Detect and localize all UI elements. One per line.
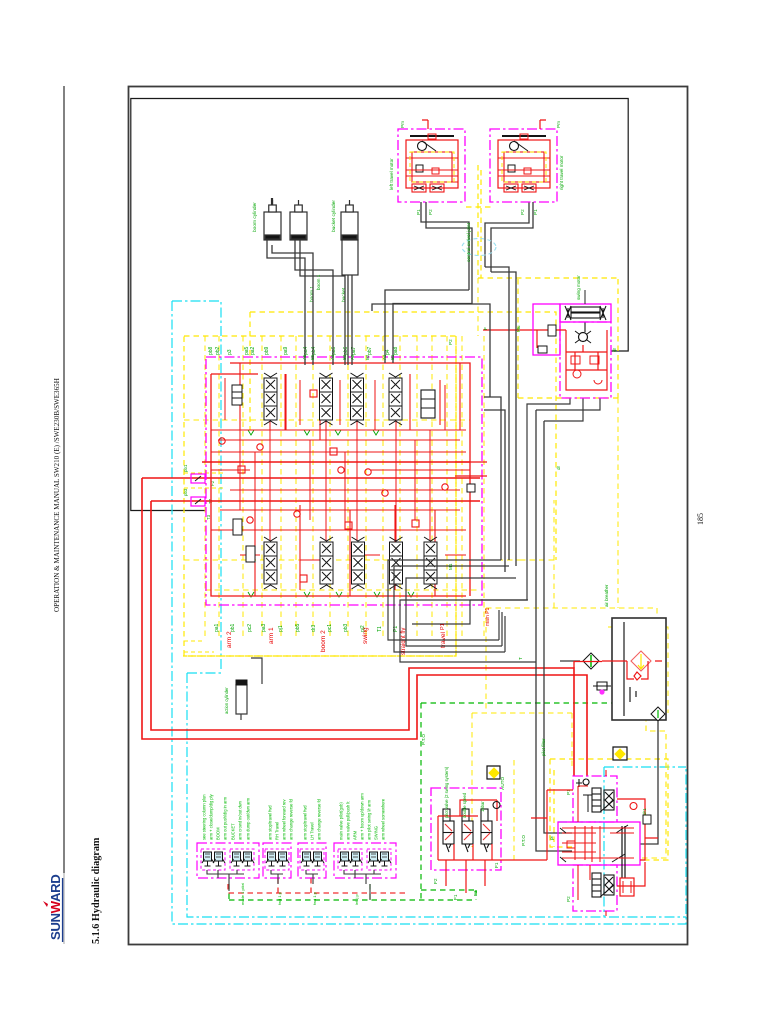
svg-text:dr: dr <box>556 465 561 470</box>
pilot line <box>295 336 297 640</box>
nested return bundle below valve <box>388 560 536 662</box>
svg-text:P2: P2 <box>448 339 453 345</box>
solenoid valve 2 <box>462 809 473 852</box>
svg-text:B2: B2 <box>365 354 370 360</box>
svg-text:see steering column plun: see steering column plun <box>202 794 207 840</box>
svg-text:arm wheel forward rev: arm wheel forward rev <box>282 799 287 840</box>
yellow port stubs left <box>184 473 225 652</box>
extra valve interior reds <box>211 420 466 541</box>
svg-text:pb4: pb4 <box>311 346 317 355</box>
svg-text:arm change reverse fd: arm change reverse fd <box>289 798 294 840</box>
svg-text:left travel motor: left travel motor <box>389 158 394 190</box>
svg-text:fwd 1 p: fwd 1 p <box>312 891 317 905</box>
svg-text:arm stop/travel fwd: arm stop/travel fwd <box>303 805 308 840</box>
svg-text:arm change reverse fd: arm change reverse fd <box>317 798 322 840</box>
svg-text:arm 1: arm 1 <box>268 627 275 644</box>
small check valve group upper-left <box>232 385 242 405</box>
red lines into valve left <box>142 462 480 501</box>
svg-text:F1: F1 <box>494 862 500 868</box>
svg-text:arm + boom up/down arm: arm + boom up/down arm <box>360 793 365 840</box>
pilot line <box>204 336 206 640</box>
svg-text:Pm: Pm <box>400 121 405 128</box>
svg-text:pilot valve (2 swing system): pilot valve (2 swing system) <box>444 766 449 818</box>
port pb1 <box>191 474 205 483</box>
spool valve upper 3 <box>351 373 364 425</box>
solenoid valve 1 <box>443 809 454 852</box>
svg-text:A5: A5 <box>302 354 307 360</box>
svg-text:pa8: pa8 <box>393 346 399 355</box>
svg-text:arm 2: arm 2 <box>226 631 233 648</box>
red pump delivery lines long <box>142 478 587 776</box>
pilot valve group 1 (LH joystick) <box>197 843 259 878</box>
svg-text:15bar: 15bar <box>480 801 485 812</box>
boom cylinder hoses <box>267 240 313 365</box>
spool valve upper 1 <box>264 373 277 425</box>
pilot line <box>280 336 282 640</box>
svg-text:arm valve pull/push lt: arm valve pull/push lt <box>346 801 351 840</box>
svg-text:P2: P2 <box>566 896 571 902</box>
pilot line <box>261 336 263 640</box>
svg-text:pb2: pb2 <box>215 346 221 355</box>
pilot accumulator cylinder <box>236 658 262 720</box>
svg-text:P.T.O: P.T.O <box>521 835 526 846</box>
svg-text:Mu: Mu <box>516 325 521 332</box>
svg-text:main P1: main P1 <box>485 607 491 626</box>
svg-text:RH Travel: RH Travel <box>275 822 280 840</box>
svg-text:boom cylinder: boom cylinder <box>252 202 258 232</box>
pilot line <box>416 336 418 640</box>
svg-text:pj1: pj1 <box>278 625 284 632</box>
svg-text:B1: B1 <box>390 354 395 360</box>
red line solenoid to pump <box>531 790 573 860</box>
solenoid block red piping <box>438 800 547 860</box>
SUNWARD logo <box>43 875 63 942</box>
pilot line <box>382 336 384 640</box>
breather small glyph <box>593 682 611 690</box>
svg-text:pb3: pb3 <box>343 623 349 632</box>
bucket cylinder barrel extension <box>342 240 358 275</box>
svg-text:ARM: ARM <box>353 830 358 840</box>
pilot pair 2 <box>265 849 289 870</box>
svg-text:dr1: dr1 <box>642 808 647 815</box>
spool valve lower 5 <box>424 537 437 589</box>
yellow box pump top <box>550 759 668 860</box>
yellow pilot box around main valve <box>184 336 456 656</box>
swing reduction gearbox box <box>533 304 560 355</box>
accumulator near pump <box>613 747 627 760</box>
travel motor hoses right <box>485 202 533 272</box>
accumulator near solenoid <box>487 766 500 779</box>
pilot line <box>483 336 485 640</box>
swing motor symbol <box>579 333 588 342</box>
pilot line <box>329 336 331 640</box>
pump swash arrows <box>600 800 614 897</box>
main pump P2 (piston pump) <box>592 873 614 897</box>
pilot pair 1b <box>230 849 254 870</box>
svg-text:M1: M1 <box>448 563 453 570</box>
svg-text:double speed: double speed <box>462 792 467 818</box>
svg-text:pa9: pa9 <box>283 346 289 355</box>
regulator red circuit <box>562 826 596 862</box>
pilot line <box>218 336 220 640</box>
anti-sway valve left <box>537 330 566 348</box>
gray hose from top right <box>372 304 490 397</box>
svg-text:P.T.O: P.T.O <box>421 734 426 745</box>
svg-text:Pm: Pm <box>556 121 561 128</box>
svg-text:pa2: pa2 <box>250 346 256 355</box>
pump lower magenta box <box>573 865 617 911</box>
travel motor hoses left <box>421 202 472 304</box>
yellow pilot to tank area <box>486 398 657 656</box>
pump red envelope lines <box>578 770 606 916</box>
svg-text:F1: F1 <box>453 894 459 900</box>
svg-text:BOOM: BOOM <box>216 827 221 840</box>
svg-text:arm out push/dig in arm: arm out push/dig in arm <box>223 796 228 840</box>
svg-text:boom 2: boom 2 <box>320 630 327 652</box>
svg-text:SWING: SWING <box>374 826 379 840</box>
swing gear symbol <box>565 306 606 332</box>
svg-text:arm crowd in/out dwn: arm crowd in/out dwn <box>238 800 243 840</box>
svg-text:T1: T1 <box>377 626 383 632</box>
svg-text:LH Travel: LH Travel <box>310 822 315 840</box>
svg-text:fwd 1 p: fwd 1 p <box>277 891 282 905</box>
main control valve magenta envelope <box>206 357 482 605</box>
pilot line <box>347 336 349 640</box>
svg-text:bucket cylinder: bucket cylinder <box>331 200 337 232</box>
swing motor valve block magenta <box>560 322 611 398</box>
pump upper magenta box <box>573 776 617 822</box>
yellow line between travel motors <box>466 165 618 398</box>
tank drain bus loop (left/top rails) <box>131 99 628 511</box>
pilot valve group 3 (LH travel) <box>298 843 326 878</box>
red internal manifold lines lower <box>211 470 470 596</box>
svg-text:A3: A3 <box>330 354 335 360</box>
left travel motor <box>398 129 465 202</box>
svg-text:arm stop/travel fwd: arm stop/travel fwd <box>268 805 273 840</box>
yellow pilot horizontals valve zone <box>184 419 470 421</box>
svg-text:BUCKET: BUCKET <box>231 823 236 840</box>
svg-text:arm + close/dump/dig ply: arm + close/dump/dig ply <box>209 793 214 840</box>
svg-text:main valve pilot(gob): main valve pilot(gob) <box>339 802 344 840</box>
green tick marks at spool bases <box>248 430 414 597</box>
svg-text:F3: F3 <box>473 890 479 896</box>
hydraulic tank <box>612 618 666 720</box>
svg-text:central swivel joint: central swivel joint <box>466 222 472 262</box>
red riser pair to swing <box>455 330 537 476</box>
bucket cylinder <box>341 200 358 240</box>
black riser bundle right of valve <box>484 397 505 572</box>
svg-text:pc1: pc1 <box>327 624 333 632</box>
red feed stubs above motors <box>422 120 546 129</box>
solenoid valve 3 <box>481 809 492 852</box>
spool valve lower 2 <box>320 537 333 589</box>
spool valve lower 3 <box>352 537 365 589</box>
svg-text:P1: P1 <box>533 209 538 215</box>
central swivel joint ellipse <box>462 239 496 256</box>
spool valve lower 4 <box>390 537 403 589</box>
relief valve small left <box>233 519 255 562</box>
right travel motor <box>490 129 557 202</box>
svg-text:T: T <box>518 657 523 660</box>
cyan drain line envelope left <box>172 301 686 924</box>
pilot valve group 4 (RH joystick) <box>334 843 396 878</box>
tank drain down to pump <box>640 721 658 844</box>
drive shaft <box>622 826 625 878</box>
svg-text:p4: p4 <box>385 349 391 355</box>
svg-text:185: 185 <box>696 513 705 525</box>
svg-text:B5: B5 <box>310 354 315 360</box>
bucket cylinder hoses <box>348 275 352 365</box>
pilot relief small <box>493 802 500 809</box>
pilot hoses to green drain <box>228 884 230 891</box>
spool valve upper 4 <box>389 373 402 425</box>
pilot pair 4a <box>338 849 362 870</box>
svg-text:T3: T3 <box>206 514 211 520</box>
svg-text:swing motor: swing motor <box>576 275 581 300</box>
boom cylinder 2 <box>290 200 307 240</box>
svg-text:F2: F2 <box>433 878 439 884</box>
svg-text:dr3: dr3 <box>311 625 317 632</box>
svg-text:air breather: air breather <box>604 584 609 607</box>
misc small red elements in valve <box>219 438 225 444</box>
svg-text:pa4: pa4 <box>303 346 309 355</box>
pilot line <box>461 336 463 640</box>
svg-text:pb7: pb7 <box>367 346 373 355</box>
pilot valve group 2 (RH travel) <box>263 843 291 878</box>
pilot line <box>365 336 367 640</box>
pump regulator box <box>558 822 640 865</box>
svg-text:pb9: pb9 <box>264 346 270 355</box>
main pump P1 (piston pump) <box>592 788 614 812</box>
svg-text:B3: B3 <box>342 354 347 360</box>
svg-text:F: F <box>483 327 489 330</box>
swing motor top box (gear) <box>560 304 611 322</box>
swing block red circuit <box>566 330 607 390</box>
svg-text:pb5: pb5 <box>295 623 301 632</box>
svg-text:A2: A2 <box>350 354 355 360</box>
svg-text:mode 1 pilot: mode 1 pilot <box>240 882 245 905</box>
yellow box solenoid/pump mid <box>472 627 668 847</box>
return line through filters <box>602 660 662 662</box>
spool valve upper 2 <box>320 373 333 425</box>
svg-text:boom 1: boom 1 <box>316 274 321 290</box>
suction filter green diamond <box>583 653 599 669</box>
yellow pilot box outer 2 <box>183 312 556 656</box>
svg-text:SUNWARD: SUNWARD <box>48 875 63 940</box>
tank internal baffle <box>623 622 625 716</box>
svg-text:pilot filter: pilot filter <box>541 738 546 756</box>
svg-text:pa3: pa3 <box>261 623 267 632</box>
red feed small items right <box>630 803 637 810</box>
svg-text:boom 1: boom 1 <box>309 286 315 302</box>
return filter red diamond <box>631 651 651 671</box>
svg-text:bucket: bucket <box>341 287 347 302</box>
svg-text:A1: A1 <box>382 354 387 360</box>
svg-text:P2: P2 <box>428 209 433 215</box>
svg-text:pb1: pb1 <box>183 464 188 472</box>
solenoid valve block magenta box <box>431 788 501 870</box>
yellow drop from travel to valve <box>477 278 479 336</box>
svg-text:pb8: pb8 <box>208 346 214 355</box>
boom cylinder 1 <box>264 200 281 240</box>
main valve red body outline <box>211 363 470 596</box>
svg-text:arm wheel somewhere: arm wheel somewhere <box>381 798 386 840</box>
svg-text:dr: dr <box>612 347 617 352</box>
svg-text:left j p: left j p <box>354 894 359 905</box>
red internal manifold lines upper <box>211 363 466 440</box>
red dashed pilot return <box>228 878 407 893</box>
svg-text:action cylinder: action cylinder <box>224 687 229 714</box>
swing motor drain wires to bundle <box>527 398 600 600</box>
spool valve lower 1 <box>264 537 277 589</box>
page outer frame <box>129 87 688 945</box>
green dashed drain box <box>229 703 661 900</box>
svg-text:P1: P1 <box>416 209 421 215</box>
cyan drain into pump <box>558 821 604 823</box>
pressure valve right of upper row <box>421 390 435 418</box>
svg-text:pc2: pc2 <box>247 624 253 632</box>
svg-text:pb1: pb1 <box>230 623 236 632</box>
pilot line <box>242 336 244 640</box>
drain diamond bottom <box>651 707 665 721</box>
svg-text:P1: P1 <box>440 623 446 630</box>
pump servo glyphs top <box>576 779 589 787</box>
pilot gear pump <box>620 878 634 896</box>
sidebar rule <box>63 86 65 873</box>
pilot line <box>446 336 448 640</box>
svg-text:P2: P2 <box>520 209 525 215</box>
svg-text:swing: swing <box>362 627 369 644</box>
pilot line <box>399 336 401 640</box>
svg-text:pa6: pa6 <box>331 346 337 355</box>
svg-text:5.1.6 Hydraulic diagram: 5.1.6 Hydraulic diagram <box>91 837 102 944</box>
pilot line <box>312 336 314 640</box>
svg-text:p3: p3 <box>227 349 233 355</box>
pilot line <box>431 336 433 640</box>
svg-text:pb3: pb3 <box>183 488 188 496</box>
svg-text:right travel motor: right travel motor <box>559 155 564 190</box>
pilot group 1 linkage <box>207 870 244 884</box>
red return from valve to tank filter <box>574 662 602 669</box>
pilot pair 1a <box>201 849 225 870</box>
svg-text:pa1: pa1 <box>214 623 220 632</box>
gear oil line <box>584 290 586 304</box>
svg-text:pi: pi <box>549 836 554 840</box>
port pb3 <box>191 497 205 506</box>
filter bypass loop <box>627 661 648 680</box>
pilot pair 4b <box>367 849 391 870</box>
svg-text:arm pilot swing l/r arm: arm pilot swing l/r arm <box>367 799 372 840</box>
pilot pair 3 <box>300 849 324 870</box>
svg-text:OPERATION & MAINTENANCE MANUAL: OPERATION & MAINTENANCE MANUAL SW210 (E)… <box>53 378 61 612</box>
svg-text:arm dump out/dwn arm: arm dump out/dwn arm <box>246 797 251 840</box>
